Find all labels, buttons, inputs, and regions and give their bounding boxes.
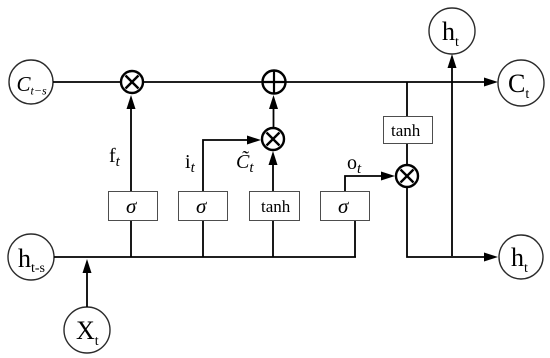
node h_t top [429,8,475,54]
svg-text:tanh: tanh [391,121,421,140]
box sigma 3 (output gate) [321,192,370,221]
node C_{t-s} [9,60,53,104]
node h_{t-s} [8,234,54,280]
wire sigma2 up and right to multiply X2 with arrow [203,136,261,192]
wire sigma2 down to h line [202,221,204,257]
multiply X3 (output) [396,165,418,187]
box tanh (right) [384,117,433,144]
svg-text:σ: σ [338,194,350,218]
wire sigma3 down to h line [354,221,356,257]
wire multiply X1 to plus [143,81,262,83]
wire tanh box to multiply X3 [406,144,408,165]
svg-text:tanh: tanh [261,197,291,216]
box sigma 1 (forget gate) [109,192,158,221]
wire up to h_t top with arrow [448,54,457,256]
svg-text:σ: σ [196,194,208,218]
wire o gate to multiply X3 with arrow [345,172,395,192]
node C_t [498,60,544,106]
node X_t [64,307,110,353]
wire plus to C_t with arrow [286,78,499,87]
multiply X2 (input) [262,128,284,150]
wire multiply X3 down and right to h_t with arrow [407,187,498,262]
wire tanh box up to multiply X2 with arrow [269,151,278,191]
wire tap from C line down to tanh box [406,82,408,116]
wire C_{t-s} to multiply [53,81,121,83]
wire multiply X2 up to plus with arrow [269,95,278,128]
multiply X1 (forget) [121,71,143,93]
box tanh (candidate) [250,192,300,221]
box sigma 2 (input gate) [179,192,228,221]
svg-text:σ: σ [126,194,138,218]
wire tanh down to h line [272,221,274,257]
wire sigma1 down to h line [130,221,132,257]
wire sigma1 up to multiply X1 with arrow [127,95,136,191]
node h_t right [499,235,543,279]
wire X_t up with arrow [83,259,92,307]
wire h_{t-s} horizontal [54,256,356,258]
adder plus [263,71,286,94]
